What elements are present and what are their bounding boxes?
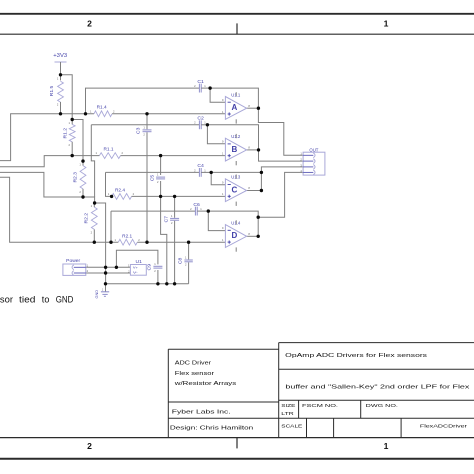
svg-text:ADC Driver: ADC Driver [175,361,212,367]
svg-text:Flex sensor: Flex sensor [175,371,215,377]
svg-text:R1.1: R1.1 [104,147,115,152]
svg-text:C4: C4 [197,163,204,168]
svg-text:U1.3: U1.3 [231,175,241,180]
svg-text:+3V3: +3V3 [53,53,67,59]
svg-text:Power: Power [66,258,81,263]
svg-text:R2.3: R2.3 [72,171,77,182]
svg-text:C9: C9 [147,263,152,270]
svg-text:U1.1: U1.1 [231,92,241,97]
svg-text:V+: V+ [133,266,138,270]
svg-text:C2: C2 [197,116,204,121]
svg-text:OUT: OUT [309,147,318,152]
svg-text:U1.2: U1.2 [231,134,241,139]
svg-text:SCALE: SCALE [281,423,303,429]
svg-text:GND: GND [56,294,74,304]
svg-text:D: D [232,231,238,240]
svg-text:C8: C8 [177,257,182,264]
svg-text:tied: tied [19,294,35,304]
svg-text:GND: GND [95,290,99,299]
svg-text:C: C [232,185,238,194]
svg-text:B: B [232,145,238,154]
svg-text:1: 1 [384,19,389,29]
svg-text:nsor: nsor [0,294,13,304]
svg-text:C7: C7 [163,215,168,222]
svg-text:R1.4: R1.4 [97,105,108,110]
svg-text:OpAmp ADC Drivers for Flex sen: OpAmp ADC Drivers for Flex sensors [285,353,427,359]
svg-text:FlexADCDriver: FlexADCDriver [420,423,468,429]
svg-text:to: to [42,294,50,304]
svg-text:C3: C3 [136,127,141,134]
svg-text:w/Resistor Arrays: w/Resistor Arrays [175,381,237,387]
svg-text:1: 1 [384,441,389,451]
svg-text:C1: C1 [197,79,204,84]
svg-text:R2.4: R2.4 [115,188,126,193]
svg-text:R2.2: R2.2 [84,212,89,223]
svg-text:U1: U1 [136,259,143,264]
svg-text:R1.2: R1.2 [62,127,67,138]
svg-text:C5: C5 [149,174,154,181]
svg-text:SIZE: SIZE [281,403,296,409]
svg-text:U1.4: U1.4 [231,220,241,225]
svg-text:LTR: LTR [281,411,294,417]
svg-text:R2.1: R2.1 [122,233,133,238]
svg-text:2: 2 [87,19,92,29]
svg-text:2: 2 [87,441,92,451]
svg-text:Design: Chris Hamilton: Design: Chris Hamilton [170,425,253,431]
svg-text:DWG NO.: DWG NO. [366,403,398,409]
svg-text:Fyber Labs Inc.: Fyber Labs Inc. [172,409,231,415]
svg-text:buffer and "Sallen-Key" 2nd or: buffer and "Sallen-Key" 2nd order LPF fo… [285,385,469,391]
svg-text:R1.5: R1.5 [49,85,54,96]
svg-text:V-: V- [133,271,138,275]
svg-text:C6: C6 [193,202,200,207]
svg-text:A: A [232,103,238,112]
svg-text:FSCM NO.: FSCM NO. [302,403,338,409]
